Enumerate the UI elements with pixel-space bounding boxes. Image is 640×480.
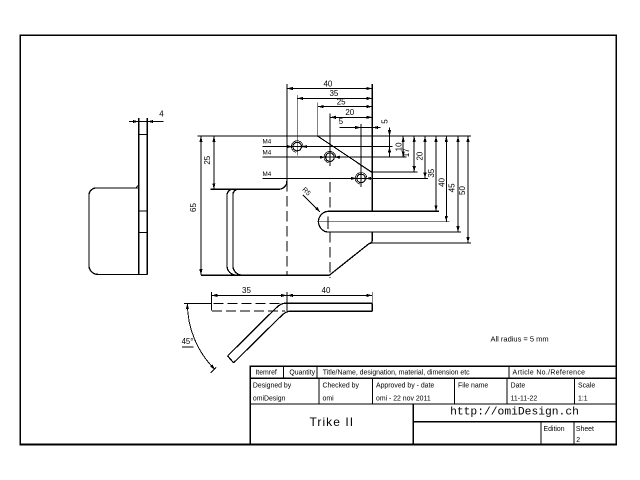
title block http cell bottom line [413, 421, 616, 423]
M4 hole 1 right arrow [302, 145, 308, 148]
svg-text:35: 35 [242, 286, 251, 295]
top dimension 5 left outside arrow [355, 126, 361, 129]
left dimension 65 bottom arrow [199, 269, 202, 275]
svg-text:45°: 45° [182, 337, 194, 346]
side view plate tick at slot bottom level [139, 231, 148, 233]
right dimension 35 top arrow [434, 136, 437, 142]
svg-text:Checked by: Checked by [323, 383, 360, 390]
M4 callout leader line hole 1 [263, 146, 393, 148]
svg-text:40: 40 [438, 177, 447, 186]
right dimension 50 bottom arrow [466, 237, 469, 243]
title block divider date-scale [574, 378, 576, 404]
top dimension 20 right arrow [366, 116, 372, 119]
hole 2 centre vertical line [329, 148, 331, 166]
M4 hole 1 left arrow [287, 145, 293, 148]
M4 hole 2 right arrow [334, 156, 340, 159]
title block divider sheet [573, 422, 575, 445]
svg-text:Article No./Reference: Article No./Reference [513, 369, 586, 376]
svg-text:All radius = 5 mm: All radius = 5 mm [491, 335, 549, 344]
slot centre line with extension [317, 221, 449, 223]
right dimension 10 line [402, 136, 404, 157]
slot rounded end semicircle [318, 211, 327, 232]
angle reference extension line [184, 302, 212, 304]
side view plate tick at slot top level [139, 210, 148, 212]
right dimension 40 bottom arrow [445, 216, 448, 222]
bottom view band bottom edge solid [290, 310, 372, 312]
svg-text:omi - 22 nov 2011: omi - 22 nov 2011 [376, 395, 431, 402]
svg-text:Scale: Scale [578, 383, 595, 390]
svg-text:25: 25 [337, 97, 346, 106]
svg-text:omi: omi [323, 395, 335, 402]
svg-text:Itemref: Itemref [255, 369, 277, 376]
svg-text:17: 17 [402, 148, 411, 157]
M4 hole 3 left arrow [351, 177, 357, 180]
right dimension 17 bottom arrow [413, 166, 416, 172]
right dimension 5 line [389, 128, 391, 158]
top dimension 35 left arrow [297, 97, 303, 100]
top dimension 40 left arrow [287, 87, 293, 90]
front view flange corner horizontal edge at 17mm with extension [372, 171, 418, 173]
title block divider itemref-quantity [282, 366, 284, 378]
extension line hole2 to top dims [329, 114, 331, 167]
bottom view extension line bend [286, 292, 288, 311]
front view flange diagonal edge [318, 136, 372, 172]
extension line hole1 to top dims [296, 95, 298, 143]
slot bottom edge with extension [328, 231, 461, 233]
top dimension 20 left arrow [330, 116, 336, 119]
front view bend line 1 extension to top dims [286, 84, 288, 136]
svg-text:11-11-22: 11-11-22 [511, 395, 538, 402]
right dimension 17 line [413, 136, 415, 172]
top dimension 35 right arrow [366, 97, 372, 100]
top dimension 25 right arrow [366, 105, 372, 108]
side view plate right edge [146, 118, 148, 274]
R5 radius leader line [303, 195, 320, 212]
bottom dimension 35 right arrow [281, 294, 287, 297]
bottom dimension 40 left arrow [287, 294, 293, 297]
title block outer frame [250, 366, 616, 445]
right dimension 20 line [424, 136, 426, 178]
top dimension 5 right outside arrow [372, 126, 378, 129]
top dimension 5 line [340, 127, 381, 129]
front view wing top corner arc [279, 181, 287, 189]
svg-text:Edition: Edition [544, 426, 565, 433]
M4 tapped hole 1 thread arc [291, 141, 303, 153]
side view plate tick at flange-bend level [139, 134, 148, 136]
front view left bend inner line [233, 189, 242, 275]
45 degree dimension arc [187, 303, 214, 369]
left dimension 65 line [200, 136, 202, 275]
dimension 4 left arrow [133, 120, 139, 123]
svg-text:40: 40 [322, 286, 331, 295]
front view bend line 1 solid upper part [286, 136, 288, 181]
svg-text:Date: Date [511, 383, 526, 390]
right dimension 35 line [435, 136, 437, 211]
svg-text:20: 20 [345, 108, 354, 117]
front view left bend outer line [227, 189, 236, 275]
bottom view band right end cap [371, 303, 373, 311]
svg-text:50: 50 [458, 186, 467, 195]
top dimension 25 left arrow [318, 105, 324, 108]
svg-text:Title/Name, designation, mater: Title/Name, designation, material, dimen… [323, 369, 470, 376]
title block row2 bottom line [250, 403, 616, 405]
svg-text:20: 20 [416, 151, 425, 160]
right dimension 5 upper outside arrow [388, 130, 391, 136]
title block divider filename-date [506, 378, 508, 404]
title block row1 bottom line [250, 377, 616, 379]
M4 tapped hole 3 thread arc [355, 173, 367, 185]
side view wing profile outline [89, 188, 147, 275]
M4 tapped hole 1 circle [293, 142, 302, 151]
M4 callout leader line hole 2 [263, 156, 407, 158]
svg-text:5: 5 [339, 117, 344, 126]
side view wing-plate junction fillet [137, 186, 139, 188]
M4 tapped hole 2 circle [326, 153, 335, 162]
svg-text:65: 65 [189, 203, 198, 212]
bottom dimension 40 right arrow [366, 294, 372, 297]
right dimension 20 top arrow [423, 136, 426, 142]
svg-text:M4: M4 [263, 171, 272, 178]
right dimension 45 top arrow [456, 136, 459, 142]
front view top edge with extension lines [198, 135, 472, 137]
R5 radius label [301, 186, 312, 197]
bottom view extension line right [371, 292, 373, 304]
slot top edge with extension [328, 210, 439, 212]
bottom view leg end cap [228, 356, 234, 363]
svg-text:35: 35 [427, 168, 436, 177]
bottom view flat pattern top edge dashed [214, 302, 281, 304]
bottom view extension line left [210, 292, 212, 311]
left dimension 65 top arrow [199, 136, 202, 142]
svg-text:M4: M4 [263, 139, 272, 146]
drawing sheet border frame [20, 35, 616, 444]
front view right edge below slot and corner to diagonal [330, 232, 373, 275]
slot centre vertical mark [327, 216, 329, 229]
right dimension 35 bottom arrow [434, 205, 437, 211]
bottom view leg upper line with bend curve [228, 303, 285, 356]
svg-text:45: 45 [448, 183, 457, 192]
top dimension 35 line [297, 97, 372, 99]
left dimension 25 bottom arrow [212, 183, 215, 189]
svg-text:Approved by - date: Approved by - date [376, 383, 434, 390]
top dimension 40 right arrow [366, 87, 372, 90]
svg-text:40: 40 [323, 79, 332, 88]
dimension 4 line (plate thickness) [129, 121, 164, 123]
top dimension 25 line [318, 106, 373, 108]
R5 radius arrow [315, 207, 320, 212]
M4 tapped hole 3 circle [357, 174, 366, 183]
title block divider checked-approved [372, 378, 374, 404]
front view wing top edge [211, 188, 279, 190]
front view bend line 2 dashed upper [329, 182, 331, 211]
svg-text:Sheet: Sheet [576, 426, 594, 433]
title block divider edition [540, 422, 542, 445]
front view bend line 2 dashed lower [329, 232, 331, 278]
title block divider title-article [508, 366, 510, 378]
svg-text:4: 4 [159, 110, 164, 119]
right dimension 10 top arrow [402, 136, 405, 142]
svg-text:25: 25 [203, 155, 212, 164]
45 degree arc top arrow [186, 303, 189, 309]
svg-text:Trike II: Trike II [309, 415, 354, 429]
bottom dimension 35 left arrow [211, 294, 217, 297]
extension line diagonal corner to top dims [317, 103, 319, 137]
side view plate left edge [138, 118, 140, 274]
M4 tapped hole 2 thread arc [324, 151, 336, 163]
svg-text:File name: File name [458, 383, 488, 390]
right dimension 17 top arrow [413, 136, 416, 142]
svg-text:Quantity: Quantity [289, 369, 315, 376]
left dimension 25 top arrow [212, 136, 215, 142]
title block divider approved-filename [454, 378, 456, 404]
extension line hole3 to top dims [360, 124, 362, 170]
right dimension 50 line [467, 136, 469, 243]
front view bottom edge [201, 274, 330, 276]
dimension 4 right arrow [147, 120, 153, 123]
M4 hole 3 right arrow [365, 177, 371, 180]
right dimension 45 line [457, 136, 459, 232]
svg-text:omiDesign: omiDesign [253, 395, 286, 402]
45 degree label underline [182, 346, 194, 348]
M4 callout leader line hole 3 [263, 177, 429, 179]
svg-text:5: 5 [381, 119, 390, 124]
left dimension 25 line [213, 136, 215, 189]
top dimension 40 line [287, 88, 372, 90]
hole 3 centre vertical line [360, 170, 362, 188]
front view right edge with extension to top dims [371, 84, 373, 211]
front view bend line 1 dashed [286, 181, 288, 275]
bottom view dimension line 35-40 [211, 294, 372, 296]
45 degree arc bottom arrow [210, 364, 215, 370]
svg-text:M4: M4 [263, 150, 272, 157]
bottom view leg lower line with bend curve [234, 311, 290, 363]
right dimension 50 top arrow [466, 136, 469, 142]
svg-text:1:1: 1:1 [578, 395, 588, 402]
svg-text:2: 2 [576, 437, 580, 444]
right dimension 5 lower outside arrow [388, 147, 391, 153]
title block divider trike-http [412, 404, 414, 445]
bottom view flat pattern bottom edge dashed [212, 310, 285, 312]
right dimension 40 line [445, 136, 447, 222]
title block divider designed-checked [318, 378, 320, 404]
title block divider quantity-title [316, 366, 318, 378]
M4 hole 2 left arrow [320, 156, 326, 159]
right dimension 10 bottom arrow [402, 151, 405, 157]
bottom view band top edge solid [285, 302, 372, 304]
right dimension 40 top arrow [445, 136, 448, 142]
right dimension 20 bottom arrow [423, 173, 426, 179]
extension line step bottom to dim 50 [371, 242, 471, 244]
svg-text:http://omiDesign.ch: http://omiDesign.ch [450, 407, 579, 419]
right dimension 45 bottom arrow [456, 226, 459, 232]
top dimension 20 line [330, 116, 372, 118]
hole 1 centre vertical line [296, 138, 298, 156]
bottom view leg line extension past cap [211, 367, 217, 373]
svg-text:Designed by: Designed by [253, 383, 292, 390]
